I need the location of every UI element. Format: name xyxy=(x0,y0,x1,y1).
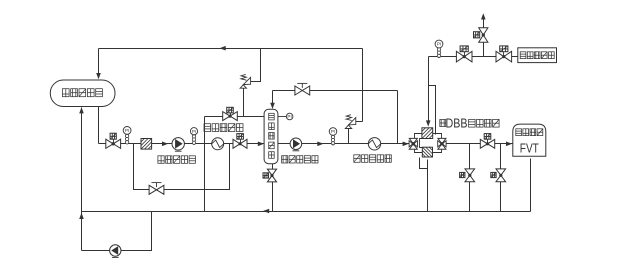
pump P3 return pump xyxy=(110,245,121,258)
wire x397 drop xyxy=(397,91,399,144)
label methanol supply pump xyxy=(158,156,196,164)
tank methanol day tank xyxy=(50,80,115,107)
wire vessel drain xyxy=(272,164,274,212)
wire DBB right loop xyxy=(433,134,442,153)
arrow into filter top xyxy=(426,120,431,126)
arrow into tank bottom xyxy=(79,107,84,113)
wire filter side jog xyxy=(429,86,436,135)
sensor PI4 xyxy=(329,128,337,145)
wire tank outlet down xyxy=(99,107,108,144)
valve DBB left xyxy=(409,138,417,149)
heat exchanger E2 high pressure xyxy=(368,138,380,150)
arrow on drain header xyxy=(263,209,269,214)
wire vessel top feed line xyxy=(273,90,398,92)
wire HX bypass left leg to header xyxy=(204,117,206,212)
heat exchanger E1 low pressure xyxy=(212,138,224,150)
label high pressure heat exchanger xyxy=(354,155,392,163)
wire relief R1 stem xyxy=(243,89,245,117)
arrow below header junction xyxy=(79,213,84,219)
wire drain header xyxy=(82,211,531,213)
label DBB duplex filter xyxy=(440,116,499,130)
arrow into vessel top xyxy=(270,103,275,109)
valve V8 drain 1 with actuator xyxy=(460,169,475,182)
wire drain branch 1 xyxy=(469,144,471,212)
wire x362 riser xyxy=(362,49,364,122)
valve V9 drain 2 with actuator xyxy=(491,169,506,182)
arrow before supply pump xyxy=(162,142,168,147)
arrow on return line xyxy=(220,46,226,51)
wire DBB left loop xyxy=(415,134,423,153)
wire DBB middle jog xyxy=(420,139,425,148)
sensor PI1 xyxy=(123,126,131,144)
label methanol circulation pump xyxy=(282,156,319,163)
svg-text:PI: PI xyxy=(437,42,441,47)
arrow into vessel left xyxy=(258,142,264,147)
wire main process line xyxy=(107,143,513,145)
sensor PI3 vessel xyxy=(286,113,293,120)
sensor PI2 xyxy=(190,128,197,145)
wire vent outlet xyxy=(483,20,485,28)
valve V7 FVT feed with actuator xyxy=(480,134,494,149)
filter strainer F1 xyxy=(141,139,159,157)
wire FVT bottom drop xyxy=(530,159,532,212)
pump P1 methanol supply pump xyxy=(172,138,184,152)
valve V10 water line with actuator xyxy=(456,46,472,62)
valve V12 water line with actuator xyxy=(496,46,512,62)
valve V2 HX bypass with actuator xyxy=(223,107,238,120)
wire vent branch xyxy=(483,43,485,57)
valve V1 supply shutoff with actuator xyxy=(106,133,121,148)
wire vessel sensor link xyxy=(278,116,287,118)
valve DBB right xyxy=(438,138,446,149)
valve V5 manual on vessel feed xyxy=(295,83,310,95)
filter DBB top element xyxy=(422,128,440,146)
arrow into FVT xyxy=(506,142,512,147)
pump P2 methanol circulation pump xyxy=(290,138,302,151)
valve V4 vessel drain with actuator xyxy=(263,169,277,182)
wire HX bypass line xyxy=(205,116,267,118)
arrow before DBB filter xyxy=(403,142,409,147)
wire water injection header xyxy=(429,56,519,58)
svg-text:PI: PI xyxy=(192,129,196,134)
svg-text:PI: PI xyxy=(125,128,129,133)
box FVT gas valve unit xyxy=(513,124,546,156)
wire return line to tank xyxy=(99,49,363,74)
arrow into tank top xyxy=(96,73,101,79)
sensor PI5 water line xyxy=(435,40,443,58)
wire vessel top drop xyxy=(272,91,274,107)
svg-text:PI: PI xyxy=(287,114,291,119)
svg-text:FVT: FVT xyxy=(520,142,539,156)
label low pressure heat exchanger xyxy=(204,124,243,132)
box water injection unit xyxy=(518,48,557,63)
wire relief R1 outlet xyxy=(251,49,261,82)
wire relief R2 stem xyxy=(348,129,350,144)
arrow after circulation pump xyxy=(317,142,323,147)
relief valve R2 xyxy=(345,115,356,129)
vessel degassing tank xyxy=(264,109,278,163)
relief valve R1 xyxy=(240,74,251,88)
filter DBB bottom element xyxy=(416,147,433,164)
wire filter top feed riser xyxy=(428,57,430,123)
wire DBB gap mask xyxy=(418,139,439,149)
wire tank return riser xyxy=(81,108,83,251)
svg-text:PI: PI xyxy=(331,129,335,134)
wire pump bypass xyxy=(134,144,230,190)
valve V3 after HX with actuator xyxy=(233,134,247,149)
wire filter drain xyxy=(420,158,428,212)
wire relief R2 outlet xyxy=(356,121,363,123)
wire pump loop xyxy=(82,212,152,251)
wire drain branch 2 xyxy=(500,144,502,212)
valve V6 bypass manual xyxy=(149,183,164,195)
svg-text:DBB: DBB xyxy=(446,116,468,130)
arrow vent up xyxy=(481,13,486,19)
valve V11 vent with actuator xyxy=(474,28,488,42)
